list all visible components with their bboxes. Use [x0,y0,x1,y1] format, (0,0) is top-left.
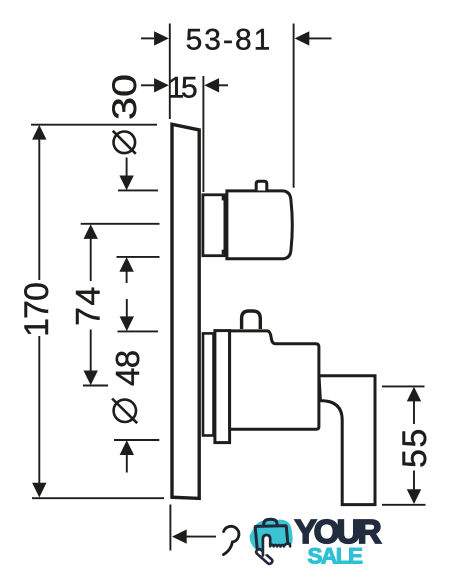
dimension text 9 (partially hidden, stylized glyph) [224,526,239,554]
dimension d48 top boundary line [118,330,159,332]
dimension 74 shaft upper [90,239,92,282]
upper handle clip notch bottom [222,250,227,255]
lower handle knob [242,311,261,329]
svg-text:74: 74 [70,285,108,326]
dimension 170 extension line top [31,124,157,126]
dimension d30 top boundary line [118,189,158,191]
dimension 53-81 left arrow [141,37,154,39]
dimension 53-81 right arrowhead [295,31,310,45]
dimension 170 bottom arrowhead [32,483,46,498]
dimension d30 bottom boundary line [117,256,160,258]
dimension 170 top arrowhead [32,125,46,140]
logo hand wrist band [256,549,272,564]
svg-text:170: 170 [18,283,56,337]
logo shopping bag body [255,526,288,554]
dimension d48 bottom arrow shaft [126,455,128,473]
dimension 170 extension line bottom [32,497,164,499]
upper handle clip notch top [222,196,227,201]
dimension 55 extension line bottom [382,504,426,506]
dimension d48 bottom boundary line [114,439,159,441]
dimension d48 bottom arrowhead [120,440,134,455]
dimension d48 top arrow shaft [126,299,128,318]
dimension 15 left arrowhead [154,78,169,92]
dimension d30 bottom arrowhead [119,257,133,272]
dimension 55 extension line top [382,385,425,387]
dimension 96 extension line below plate [169,505,171,551]
wall plate (escutcheon, side view) [172,124,199,498]
dimension 55 shaft lower [413,471,415,491]
dimension d30 top arrowhead [119,176,133,191]
dimension 170 shaft upper [38,139,40,281]
dimension 53-81 extension line left [169,24,171,120]
dimension 55 shaft upper [413,401,415,424]
lower flange ring [203,333,214,435]
svg-text:30: 30 [106,74,144,120]
dimension d48 top arrowhead [120,316,134,331]
dimension 74 shaft lower [90,330,92,372]
dimension 15 right arrow tail [219,84,228,86]
logo blob (cyan) [250,520,293,552]
lower handle sleeve [215,331,230,443]
svg-text:15: 15 [168,71,197,104]
svg-text:48: 48 [109,350,146,386]
dimension 53-81 left arrowhead [154,31,169,45]
logo hand palm (white) [262,544,292,563]
dimension 170 shaft lower [38,336,40,484]
dimension 74 top boundary line [81,223,160,225]
dimension 15 left arrow tail [141,84,155,86]
dimension 15 right arrowhead [204,78,219,92]
dimension 74 bottom boundary line [83,385,108,387]
logo bag handle [264,519,277,526]
dimension 53-81 right arrow tail [309,37,332,39]
dimension 55 top arrowhead [407,387,421,402]
lower handle body (volume handle) [230,331,319,429]
svg-text:55: 55 [396,427,434,468]
dimension 74 bottom arrowhead [84,371,98,386]
upper handle body (thermostat handle) [227,191,292,259]
dimension d30 bottom arrow shaft [126,272,128,284]
diameter symbol for 30 [113,131,136,154]
svg-text:53-81: 53-81 [186,24,273,57]
upper handle grip tab [256,181,267,190]
diameter symbol for 48 [112,399,137,424]
svg-text:SALE: SALE [308,543,364,568]
logo hand finger and knuckles [263,535,290,556]
dimension 96 arrow tail [186,536,216,538]
dimension 15 extension line right [202,76,204,192]
dimension 74 top arrowhead [84,224,98,239]
upper handle sleeve [203,195,225,256]
dimension 53-81 extension line right [293,24,295,188]
spout lever (L-shaped) [319,376,375,505]
dimension d30 top arrow shaft [126,158,128,178]
dimension 55 bottom arrowhead [407,489,421,504]
dimension 96 left arrowhead [172,529,187,543]
